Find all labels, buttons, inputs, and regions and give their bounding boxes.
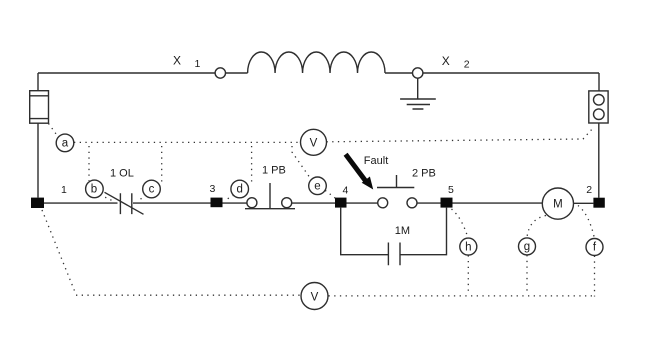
svg-text:4: 4 [343, 185, 349, 197]
svg-text:V: V [311, 291, 319, 303]
svg-text:h: h [465, 241, 471, 253]
svg-text:2: 2 [586, 184, 592, 196]
svg-text:X: X [173, 54, 181, 68]
svg-text:V: V [310, 138, 318, 150]
svg-text:2: 2 [464, 59, 470, 71]
svg-text:d: d [236, 184, 242, 196]
svg-text:e: e [314, 180, 320, 192]
svg-text:1 PB: 1 PB [262, 165, 286, 177]
svg-text:1M: 1M [395, 225, 410, 237]
svg-text:g: g [524, 241, 530, 253]
svg-text:3: 3 [210, 183, 216, 195]
svg-text:1 OL: 1 OL [110, 168, 134, 180]
svg-text:c: c [149, 184, 155, 196]
svg-text:5: 5 [448, 184, 454, 196]
svg-text:Fault: Fault [364, 155, 388, 167]
svg-text:X: X [442, 54, 450, 68]
svg-text:b: b [91, 183, 97, 195]
svg-text:M: M [553, 198, 563, 210]
svg-text:1: 1 [61, 184, 67, 196]
svg-text:a: a [62, 137, 69, 149]
svg-text:2 PB: 2 PB [412, 168, 436, 180]
svg-text:1: 1 [195, 58, 201, 70]
